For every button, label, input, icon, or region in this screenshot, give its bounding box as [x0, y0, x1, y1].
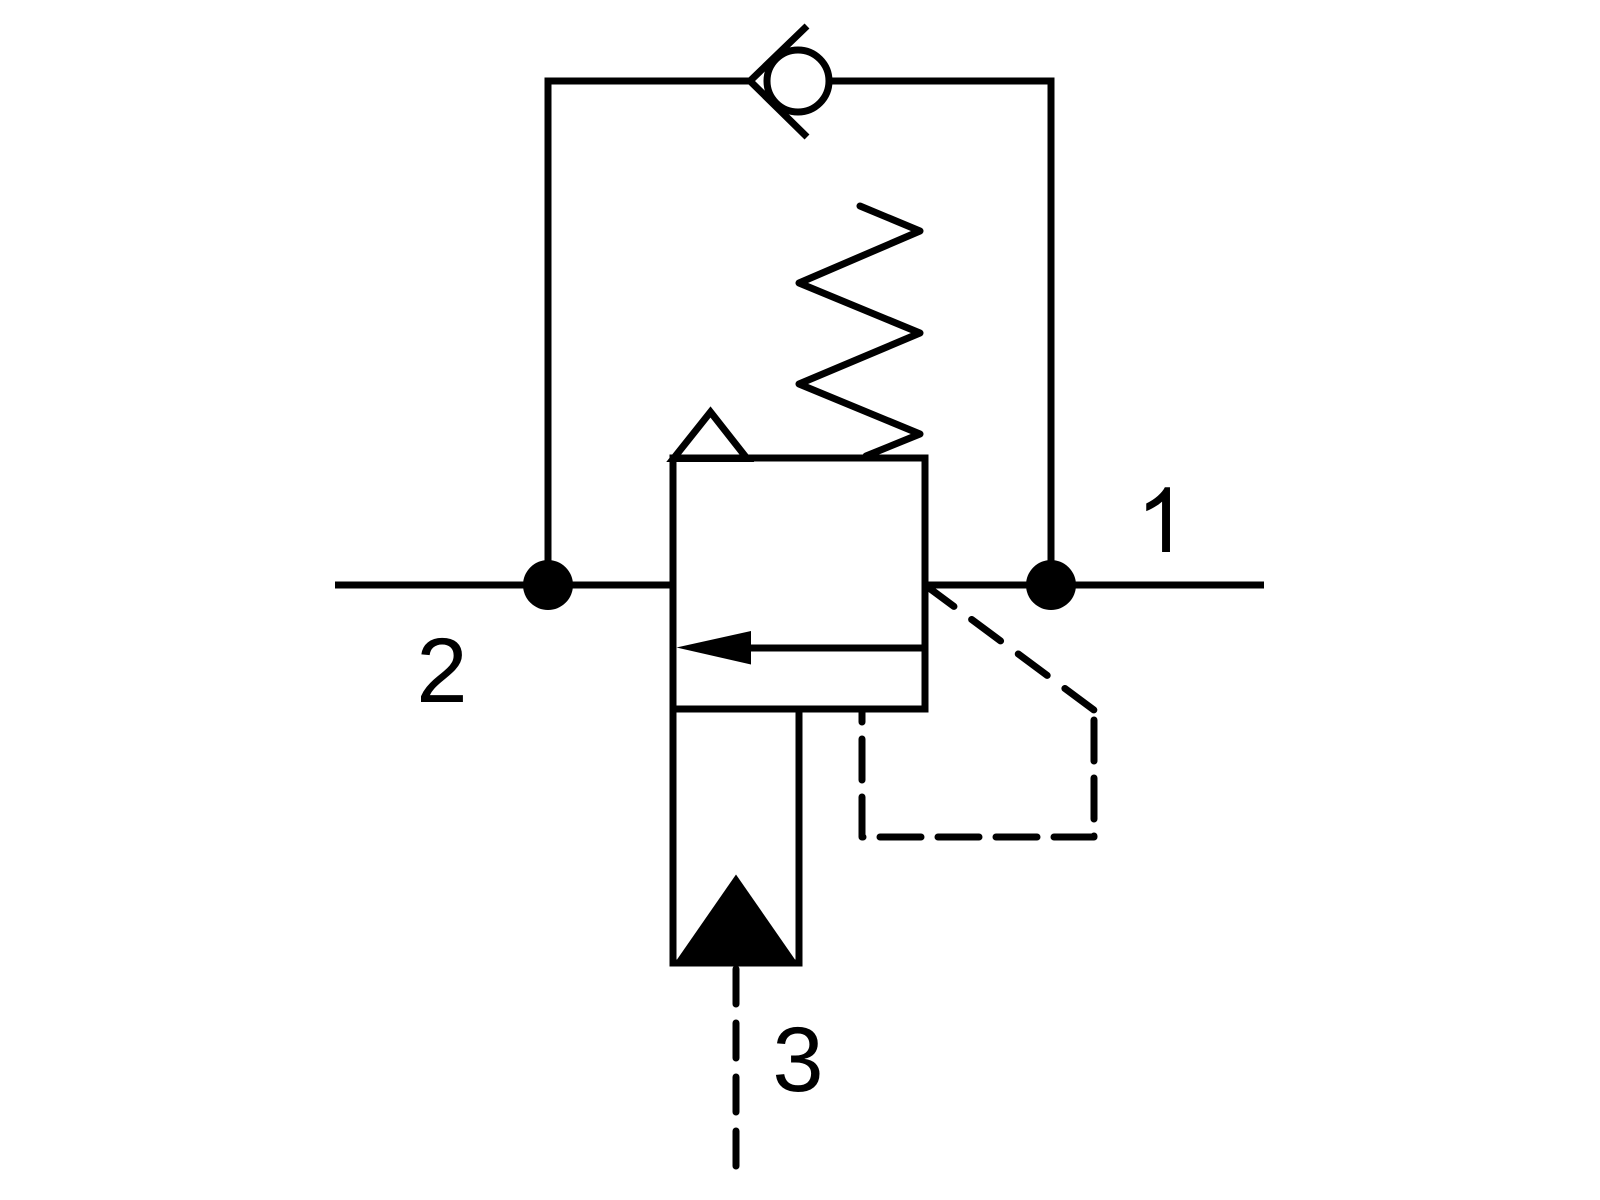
valve body envelope: [673, 458, 925, 709]
junction: node on port 1 line: [1026, 560, 1076, 610]
wire: main line right (port 1 side): [925, 582, 1264, 589]
wire: main line left (port 2 side): [335, 582, 673, 589]
wire: loop right (check valve outlet over and down to port 1 junction): [829, 81, 1051, 585]
pilot line (dashed) diagonal from port 1 corner: [925, 585, 1094, 710]
label: port 1: [1146, 487, 1170, 552]
spring (relief setting): [799, 206, 920, 456]
drain line port 3 (dashed): [733, 969, 740, 1169]
wire: loop left (port 2 junction up and over to check valve inlet): [548, 81, 750, 585]
vent triangle on body top: [674, 412, 748, 459]
tank tube (port 3 passage below body): [673, 709, 799, 963]
junction: node on port 2 line: [523, 560, 573, 610]
flow arrow inside body (toward port 2): [677, 631, 926, 665]
relief flow triangle (discharge to port 3): [676, 875, 796, 962]
pilot line (dashed) loop back to body bottom: [862, 709, 1094, 837]
svg-text:2: 2: [416, 620, 467, 722]
check valve (ball and seat): [750, 26, 829, 137]
svg-text:3: 3: [772, 1009, 823, 1111]
